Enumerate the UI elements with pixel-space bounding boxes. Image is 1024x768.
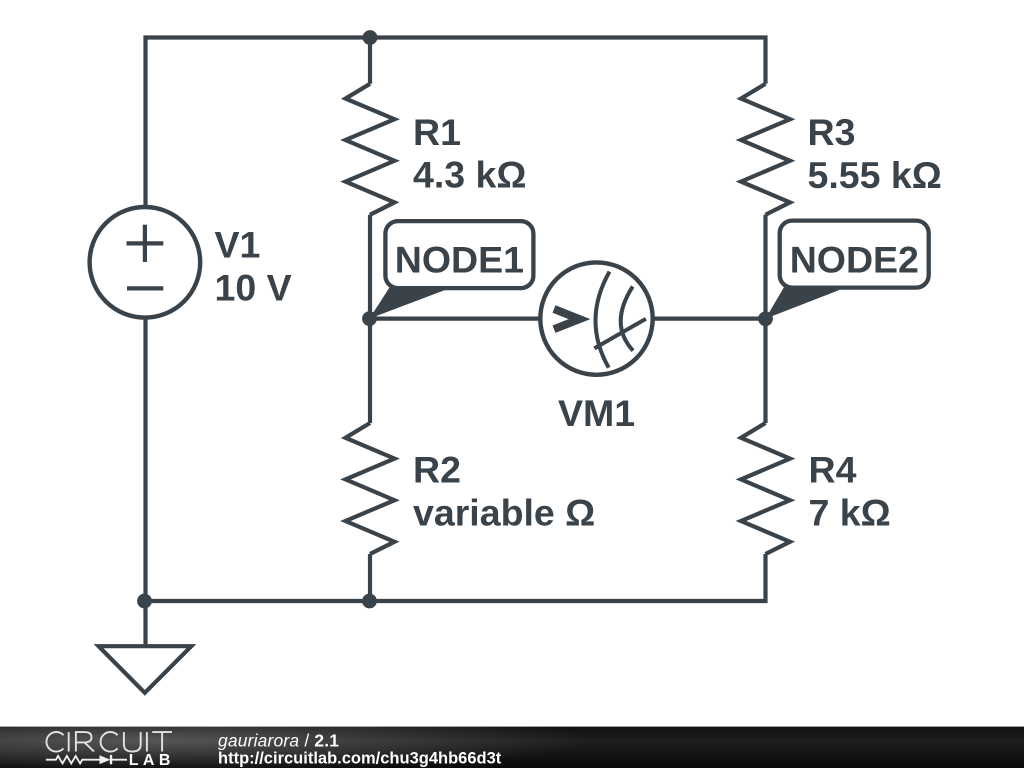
node NODE2 flag beak <box>765 287 840 319</box>
wire R1 bottom lead to NODE1 <box>368 215 372 319</box>
resistor R3 <box>741 84 790 215</box>
CircuitLab logo squiggle resistor-diode <box>46 755 127 764</box>
node NODE1 flag beak <box>369 288 447 319</box>
svg-text:LAB: LAB <box>129 752 175 768</box>
resistor R1 <box>346 84 395 215</box>
svg-text:7 kΩ: 7 kΩ <box>809 491 891 533</box>
VM1 arc left <box>595 272 609 368</box>
CircuitLab logo wordmark CIRCUIT <box>46 732 172 752</box>
resistor R4 <box>741 423 790 554</box>
wire left rail lower <box>143 317 147 601</box>
wire VM1 to NODE2 <box>653 317 766 321</box>
V1 plus sign <box>127 225 164 289</box>
wire R3 bottom lead to NODE2 <box>763 215 767 319</box>
ground stem <box>143 601 147 646</box>
junction dot NODE1 <box>362 311 377 326</box>
svg-text:V1: V1 <box>215 224 261 266</box>
resistor R2 <box>346 423 395 554</box>
svg-text:R4: R4 <box>809 449 857 491</box>
voltmeter VM1 <box>540 262 652 374</box>
svg-text:http://circuitlab.com/chu3g4hb: http://circuitlab.com/chu3g4hb66d3t <box>218 750 502 768</box>
junction dot ground <box>137 594 152 609</box>
wire R1 top lead <box>368 38 372 84</box>
svg-text:R2: R2 <box>413 449 461 491</box>
svg-text:5.55 kΩ: 5.55 kΩ <box>808 154 942 196</box>
VM1 needle line <box>594 319 646 349</box>
CircuitLab logo diode triangle <box>100 755 111 764</box>
node NODE2 flag box <box>780 221 929 288</box>
wire top rail <box>146 38 766 208</box>
V1 minus sign <box>127 286 163 290</box>
svg-text:10 V: 10 V <box>215 267 292 309</box>
ground symbol triangle <box>99 646 192 693</box>
junction dot top rail <box>363 30 378 45</box>
node NODE1 flag box <box>385 221 533 288</box>
svg-text:R1: R1 <box>413 111 461 153</box>
wire R2 bottom lead <box>368 554 372 601</box>
wire bottom rail <box>146 554 766 601</box>
wire NODE1 to VM1 <box>370 317 541 321</box>
svg-text:VM1: VM1 <box>558 392 635 434</box>
svg-text:variable Ω: variable Ω <box>413 491 595 533</box>
VM1 chevron <box>554 309 580 329</box>
junction dot NODE2 <box>758 311 773 326</box>
svg-text:R3: R3 <box>808 111 856 153</box>
VM1 arc right <box>621 287 633 351</box>
wire NODE1 to R2 <box>368 319 372 423</box>
svg-text:4.3 kΩ: 4.3 kΩ <box>413 154 526 196</box>
junction dot bottom rail <box>362 594 377 609</box>
voltage source V1 <box>90 207 201 318</box>
svg-text:NODE2: NODE2 <box>790 238 919 280</box>
wire NODE2 to R4 <box>763 319 767 423</box>
footer bar <box>0 727 1024 768</box>
svg-text:NODE1: NODE1 <box>395 239 524 281</box>
svg-text:gauriarora / 2.1: gauriarora / 2.1 <box>218 730 339 750</box>
